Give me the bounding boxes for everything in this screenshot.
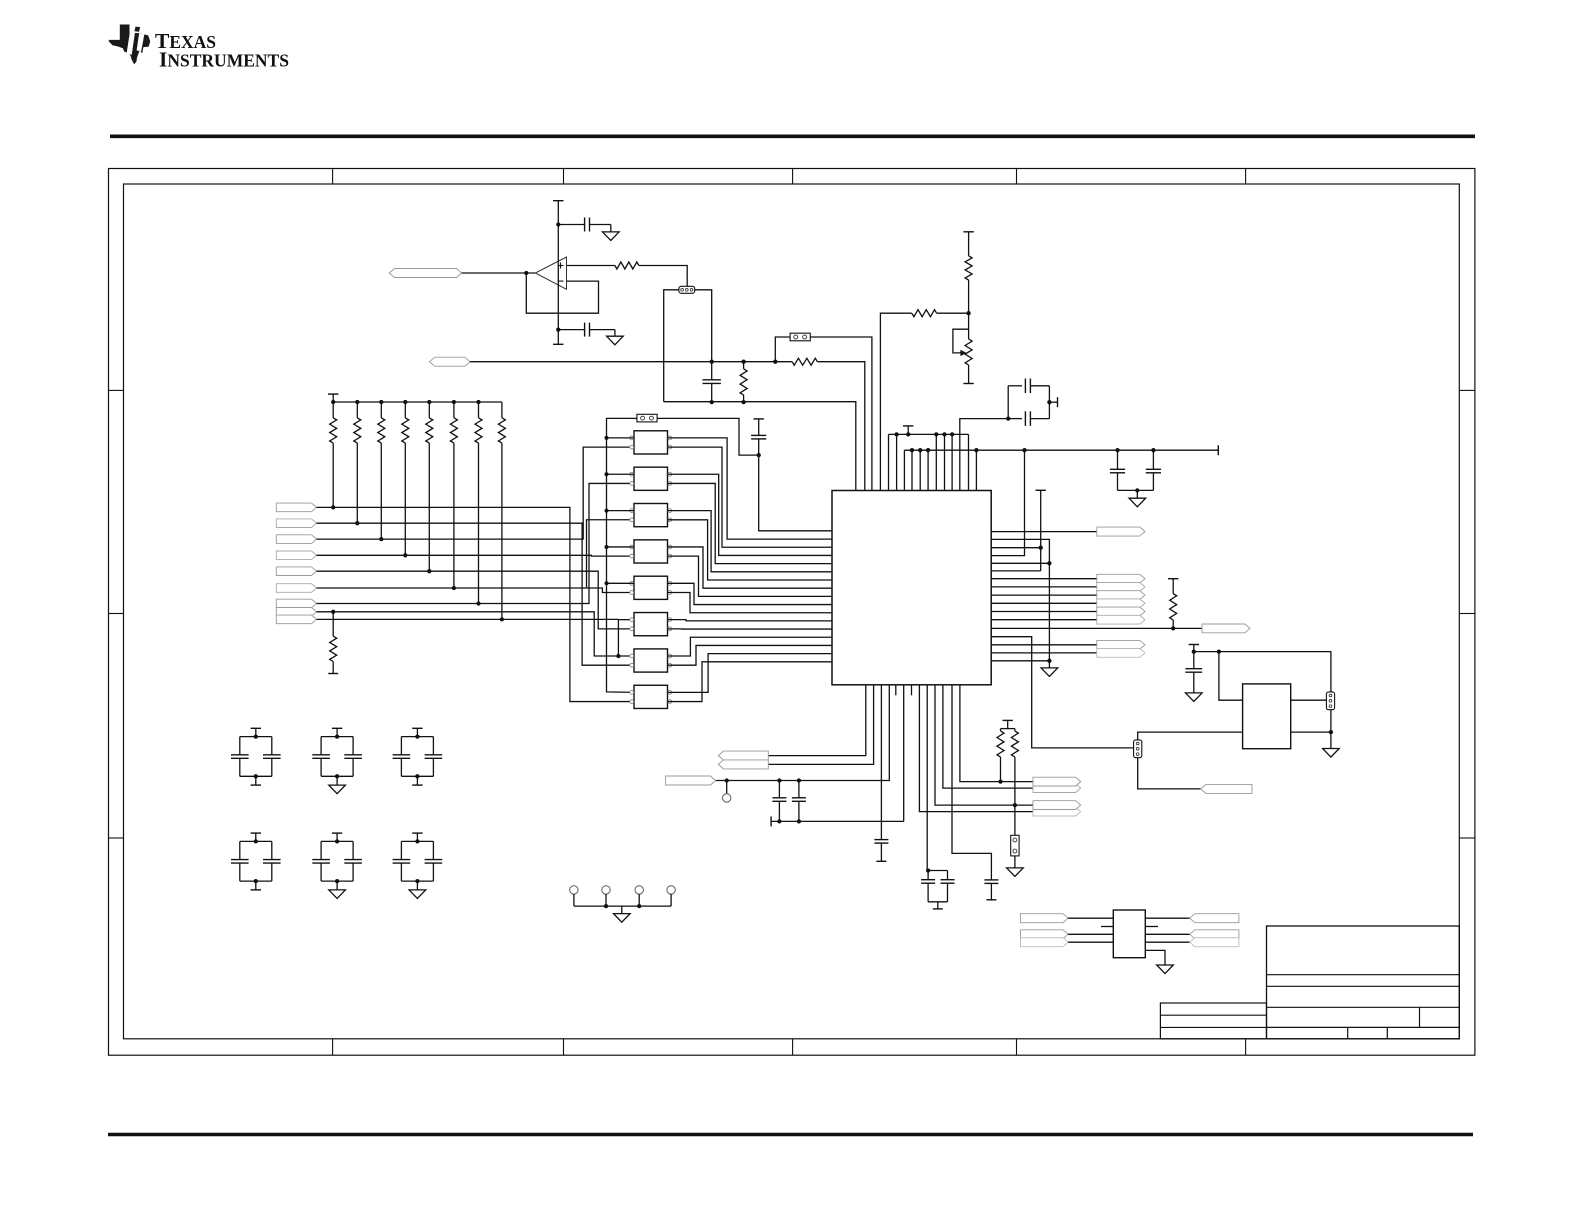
wire E1 to U12: [1068, 917, 1113, 919]
wire TP ground bus: [574, 905, 671, 907]
net flag VREF: [666, 776, 716, 785]
wire bus1 pins: [888, 434, 890, 490]
isolator U3: [634, 431, 668, 454]
isolator U8: [634, 613, 668, 636]
ground (C1): [610, 225, 612, 232]
capacitor C14: [984, 879, 998, 881]
border zone ticks right: [1459, 390, 1475, 838]
capacitor C1 (op-amp top bypass): [558, 224, 584, 226]
net flag RX: [991, 644, 1097, 646]
jumper J3 (2-pin): [637, 414, 657, 422]
capacitors C18/C19: [332, 727, 342, 729]
wire U3..U7 lower-left stubs: [0, 0, 1, 1]
op-amp V+ rail: [557, 201, 559, 345]
isolator U7: [634, 576, 668, 599]
wire J2 pin1 down: [775, 337, 790, 362]
net flag A2: [718, 760, 768, 769]
wire E3 to U12: [1068, 941, 1113, 943]
wire pin to VCC rail end: [991, 570, 1040, 572]
resistor R5: [965, 256, 972, 280]
power VCC T (resistor bank): [328, 393, 338, 395]
resistor R16: [476, 400, 480, 404]
power VDD1 T: [903, 425, 913, 427]
node R14 to row: [427, 569, 431, 573]
isolator U10: [634, 685, 668, 708]
net flag E1: [1021, 914, 1069, 923]
ground (C6/C7): [1136, 490, 1138, 498]
net flag E2: [1021, 930, 1069, 939]
net flag D4: [276, 551, 316, 560]
wire pin to flag B3: [935, 685, 1033, 805]
TI logo Texas-map glyph: [109, 25, 150, 65]
ground (J5): [1323, 749, 1340, 758]
border zone ticks left: [109, 390, 124, 838]
node cap loop bottom-left: [1006, 416, 1010, 420]
header J4 (3-pin): [1134, 740, 1142, 758]
wire bus2 pins: [903, 450, 905, 490]
wire cap loop right: [1048, 386, 1050, 419]
wire pot node to IC pin: [937, 312, 969, 314]
power bus VDD2: [904, 449, 1218, 451]
resistor R7 pullup: [1168, 578, 1178, 580]
net flag IN1: [389, 269, 462, 278]
pin stub U12 right: [1145, 926, 1158, 928]
net flag CTRL: [1202, 624, 1250, 633]
wire row8 to U3-7 upper: [317, 612, 635, 656]
title block main box: [1267, 926, 1460, 1039]
power VCC (R5 top): [963, 231, 973, 233]
resistor R2: [741, 360, 745, 364]
node V+ top cap tap: [556, 222, 560, 226]
ground (C2): [614, 330, 616, 337]
capacitors C16/C17: [251, 727, 261, 729]
wire J4 pin3 to flag: [1138, 758, 1201, 789]
wire R9 to J6: [1014, 805, 1016, 835]
wire pin row to R7 and flag: [991, 627, 1202, 629]
wire U12 ground pin: [1145, 950, 1165, 965]
isolator U5: [634, 504, 668, 527]
capacitor C13: [928, 870, 947, 872]
node OSC out: [1047, 400, 1051, 404]
node V+ bottom cap tap: [556, 327, 560, 331]
wire row3 to U3-1: [317, 447, 635, 539]
wire pin gnd tap 2: [991, 660, 1049, 662]
pin stub NC2: [911, 685, 913, 696]
ground (TP bus): [621, 906, 623, 914]
title block row lines: [1267, 975, 1460, 1028]
capacitor C7: [1151, 448, 1155, 452]
capacitor C15: [751, 434, 766, 436]
potentiometer R6: [968, 313, 970, 339]
wire row2 to U3-7: [317, 523, 635, 665]
wire pin to flag A1: [768, 685, 866, 756]
resistor R3 (series in IN2 net): [792, 358, 817, 365]
resistor R15: [452, 400, 456, 404]
resistor R8: [1001, 728, 1015, 730]
wire pin to C12/C13 pair: [926, 685, 928, 871]
wire J3 pin2 to C15 node: [657, 418, 759, 455]
capacitor C12: [926, 868, 930, 872]
wire U12 to flag F2: [1145, 933, 1189, 935]
wire J2 pin2 to IC pin: [810, 337, 872, 491]
wire cap loop to IC pin: [960, 419, 1008, 491]
node R10 to row: [331, 505, 335, 509]
title block bottom row dividers: [1348, 1027, 1388, 1038]
net flag E3: [1021, 938, 1069, 947]
resistor R4: [912, 310, 937, 317]
capacitors C24/C25: [332, 832, 342, 834]
wire U11 out to J5: [1291, 699, 1327, 701]
title block divider size cell: [1419, 1007, 1421, 1027]
wire C12/C13 bottom join: [928, 901, 947, 903]
capacitors C20/C21: [412, 727, 422, 729]
ground (J6): [1014, 856, 1016, 868]
sheet border outer: [109, 169, 1475, 1056]
node C15 bottom: [757, 453, 761, 457]
resistor R17: [501, 402, 503, 418]
node row8 branch: [616, 654, 620, 658]
wire U3-3 lower to row6: [587, 520, 635, 588]
net flag D2: [276, 519, 316, 528]
resistor R1: [615, 262, 639, 269]
wire pin to flag B2: [943, 685, 1033, 788]
wire U2 right ground rail: [991, 539, 1049, 668]
net flag IN2: [430, 357, 471, 366]
node J5/U11 join: [1329, 730, 1333, 734]
capacitor C11: [797, 778, 801, 782]
wire row6 to U3-5: [317, 588, 635, 593]
wires U3..U7 outputs to U2 (staircase): [668, 438, 833, 613]
header J5 (3-pin): [1326, 692, 1334, 710]
isolator U9: [634, 649, 668, 672]
wire pin to TP net: [716, 685, 890, 781]
test point TP1: [725, 778, 729, 782]
IC U2 (MSP430 MCU): [832, 491, 991, 685]
wire pin gnd tap 1: [991, 562, 1049, 564]
node C3 bottom: [710, 400, 714, 404]
wire R3 to IC pin: [817, 362, 864, 491]
node J1 pin3 tap: [710, 360, 714, 364]
jumper J6 (2-pin): [1011, 835, 1019, 856]
wire pin to VCC rail: [991, 547, 1040, 549]
net flag TX: [991, 652, 1097, 654]
isolator U4: [634, 467, 668, 490]
header rule: [110, 135, 1475, 139]
wire C15 node to U2 pin: [759, 455, 832, 531]
wire pin down to cap bus: [903, 685, 905, 822]
capacitor C8: [1193, 652, 1195, 669]
wire row9 to U3-6 upper: [317, 618, 619, 620]
wire VCC to J5: [1194, 652, 1331, 692]
header J1 (3-pin): [679, 286, 695, 293]
op-amp U1: [535, 257, 566, 289]
resistor R11: [355, 400, 359, 404]
wire row7 to U3-2: [317, 483, 635, 603]
wires U8..U10 outputs to U2: [668, 620, 833, 702]
node op-amp output junction: [524, 271, 528, 275]
pin stub NC1: [895, 685, 897, 696]
net flag D7 group: [276, 599, 316, 608]
node R2 bottom: [741, 400, 745, 404]
IC U11 (regulator): [1243, 684, 1291, 749]
sheet border inner: [124, 184, 1460, 1039]
capacitor C9: [880, 685, 882, 840]
wire U11 pin2 left to J4 pin1: [1138, 732, 1243, 740]
wire op-amp feedback loop: [526, 273, 598, 313]
node R15 to row: [452, 586, 456, 590]
capacitor C4 (top branch): [1008, 385, 1022, 387]
wire J3 pin1 to rail: [607, 418, 637, 692]
node R12 to row: [379, 537, 383, 541]
border zone ticks bottom: [333, 1039, 1246, 1055]
net flags data bus (6): [991, 574, 1145, 624]
wire pin to flag A2: [768, 685, 873, 765]
wire row1 to U3-8: [317, 507, 635, 701]
net flag F3: [1190, 938, 1239, 947]
capacitor C2 (op-amp bottom bypass): [558, 329, 584, 331]
net flag B3: [1033, 801, 1081, 810]
resistor R10: [332, 402, 334, 418]
net flag B2: [1033, 784, 1081, 793]
wire pin to flag B4: [919, 685, 1033, 812]
svg-text:INSTRUMENTS: INSTRUMENTS: [159, 48, 289, 72]
test points TP2-TP5: [570, 886, 676, 906]
IC U12 (transceiver): [1113, 910, 1145, 958]
net flag VSEL: [1201, 784, 1252, 793]
footer rule: [108, 1133, 1473, 1137]
ground (U12): [1157, 965, 1174, 974]
wire cap ground bus: [771, 820, 904, 822]
net flag A1: [718, 751, 768, 760]
wire U11 pin2 right: [1291, 731, 1331, 733]
net flag D8 group: [276, 608, 316, 617]
resistor R18 (pulldown): [331, 610, 335, 614]
capacitors C26/C27: [412, 832, 422, 834]
wire C6 C7 ground join: [1118, 489, 1154, 491]
net flag B4: [1033, 807, 1081, 816]
node R13 to row: [403, 553, 407, 557]
border zone ticks top: [333, 169, 1246, 185]
resistor R14: [427, 400, 431, 404]
power VCC T (right): [1036, 489, 1046, 491]
wire flag IN1 to op-amp: [462, 272, 536, 274]
wire resistor bank bus: [333, 401, 502, 403]
jumper J2 (2-pin): [790, 333, 810, 341]
capacitors C22/C23: [251, 832, 261, 834]
net flag D1: [276, 503, 316, 512]
capacitor C6: [1115, 448, 1119, 452]
wire select bus to IC pin: [664, 402, 856, 491]
wire net IN2 bus: [470, 361, 792, 363]
wire pin to bus2 drop: [991, 450, 1024, 555]
power bus VDD1: [889, 433, 969, 435]
net flag F1: [1190, 914, 1239, 923]
pin stub U12 left: [1101, 926, 1113, 928]
wire pin to flag B1: [960, 685, 1033, 782]
wire branch to U3-6 upper: [617, 620, 619, 656]
ground (U2 right): [1041, 668, 1058, 677]
node R5/R6 junction: [966, 311, 970, 315]
wire row4 to U3-4: [317, 554, 635, 557]
resistor R9: [1014, 729, 1016, 731]
rail dots at U3..U7 upper pins: [605, 436, 635, 585]
wire U12 to flag F3: [1145, 941, 1189, 943]
wire J1 pin1 down: [664, 290, 679, 402]
ground (C8): [1186, 693, 1203, 702]
wire J1 pin3 down: [695, 290, 712, 362]
power VCC T (C8): [1189, 644, 1199, 646]
revision table left: [1160, 1003, 1266, 1039]
capacitor C5 (bottom branch): [1008, 418, 1022, 420]
net flag F2: [1190, 930, 1239, 939]
wire U12 to flag F1: [1145, 917, 1189, 919]
resistor R12: [379, 400, 383, 404]
net flag D5: [276, 567, 316, 576]
wire op-amp + input to R1: [567, 265, 615, 267]
capacitor C10: [777, 778, 781, 782]
node R16 to row7: [476, 601, 480, 605]
wire E2 to U12: [1068, 933, 1113, 935]
net flag B1: [1033, 777, 1081, 786]
wire R1 to header J1: [639, 266, 687, 287]
isolator U6: [634, 540, 668, 563]
wire to U11 input: [1219, 652, 1243, 701]
wire row5 to U3-6: [317, 571, 635, 629]
wire cap loop left: [1007, 386, 1009, 419]
node J2 tap: [773, 360, 777, 364]
node R17 to row9: [500, 617, 504, 621]
capacitor C3: [711, 362, 713, 380]
power VCC T (C15): [754, 418, 764, 420]
wire pin to header J4: [991, 637, 1133, 748]
wire J5 bottom: [1330, 710, 1332, 749]
net flag D6: [276, 584, 316, 593]
net flag D3: [276, 535, 316, 544]
net flag OUT1: [991, 531, 1097, 533]
resistor R13: [403, 400, 407, 404]
power VCC T (R8/R9): [1003, 719, 1013, 721]
node C8 top: [1192, 649, 1196, 653]
net flag D9 group: [276, 615, 316, 624]
node R11 to row: [355, 521, 359, 525]
wire pin to C14: [952, 685, 991, 880]
